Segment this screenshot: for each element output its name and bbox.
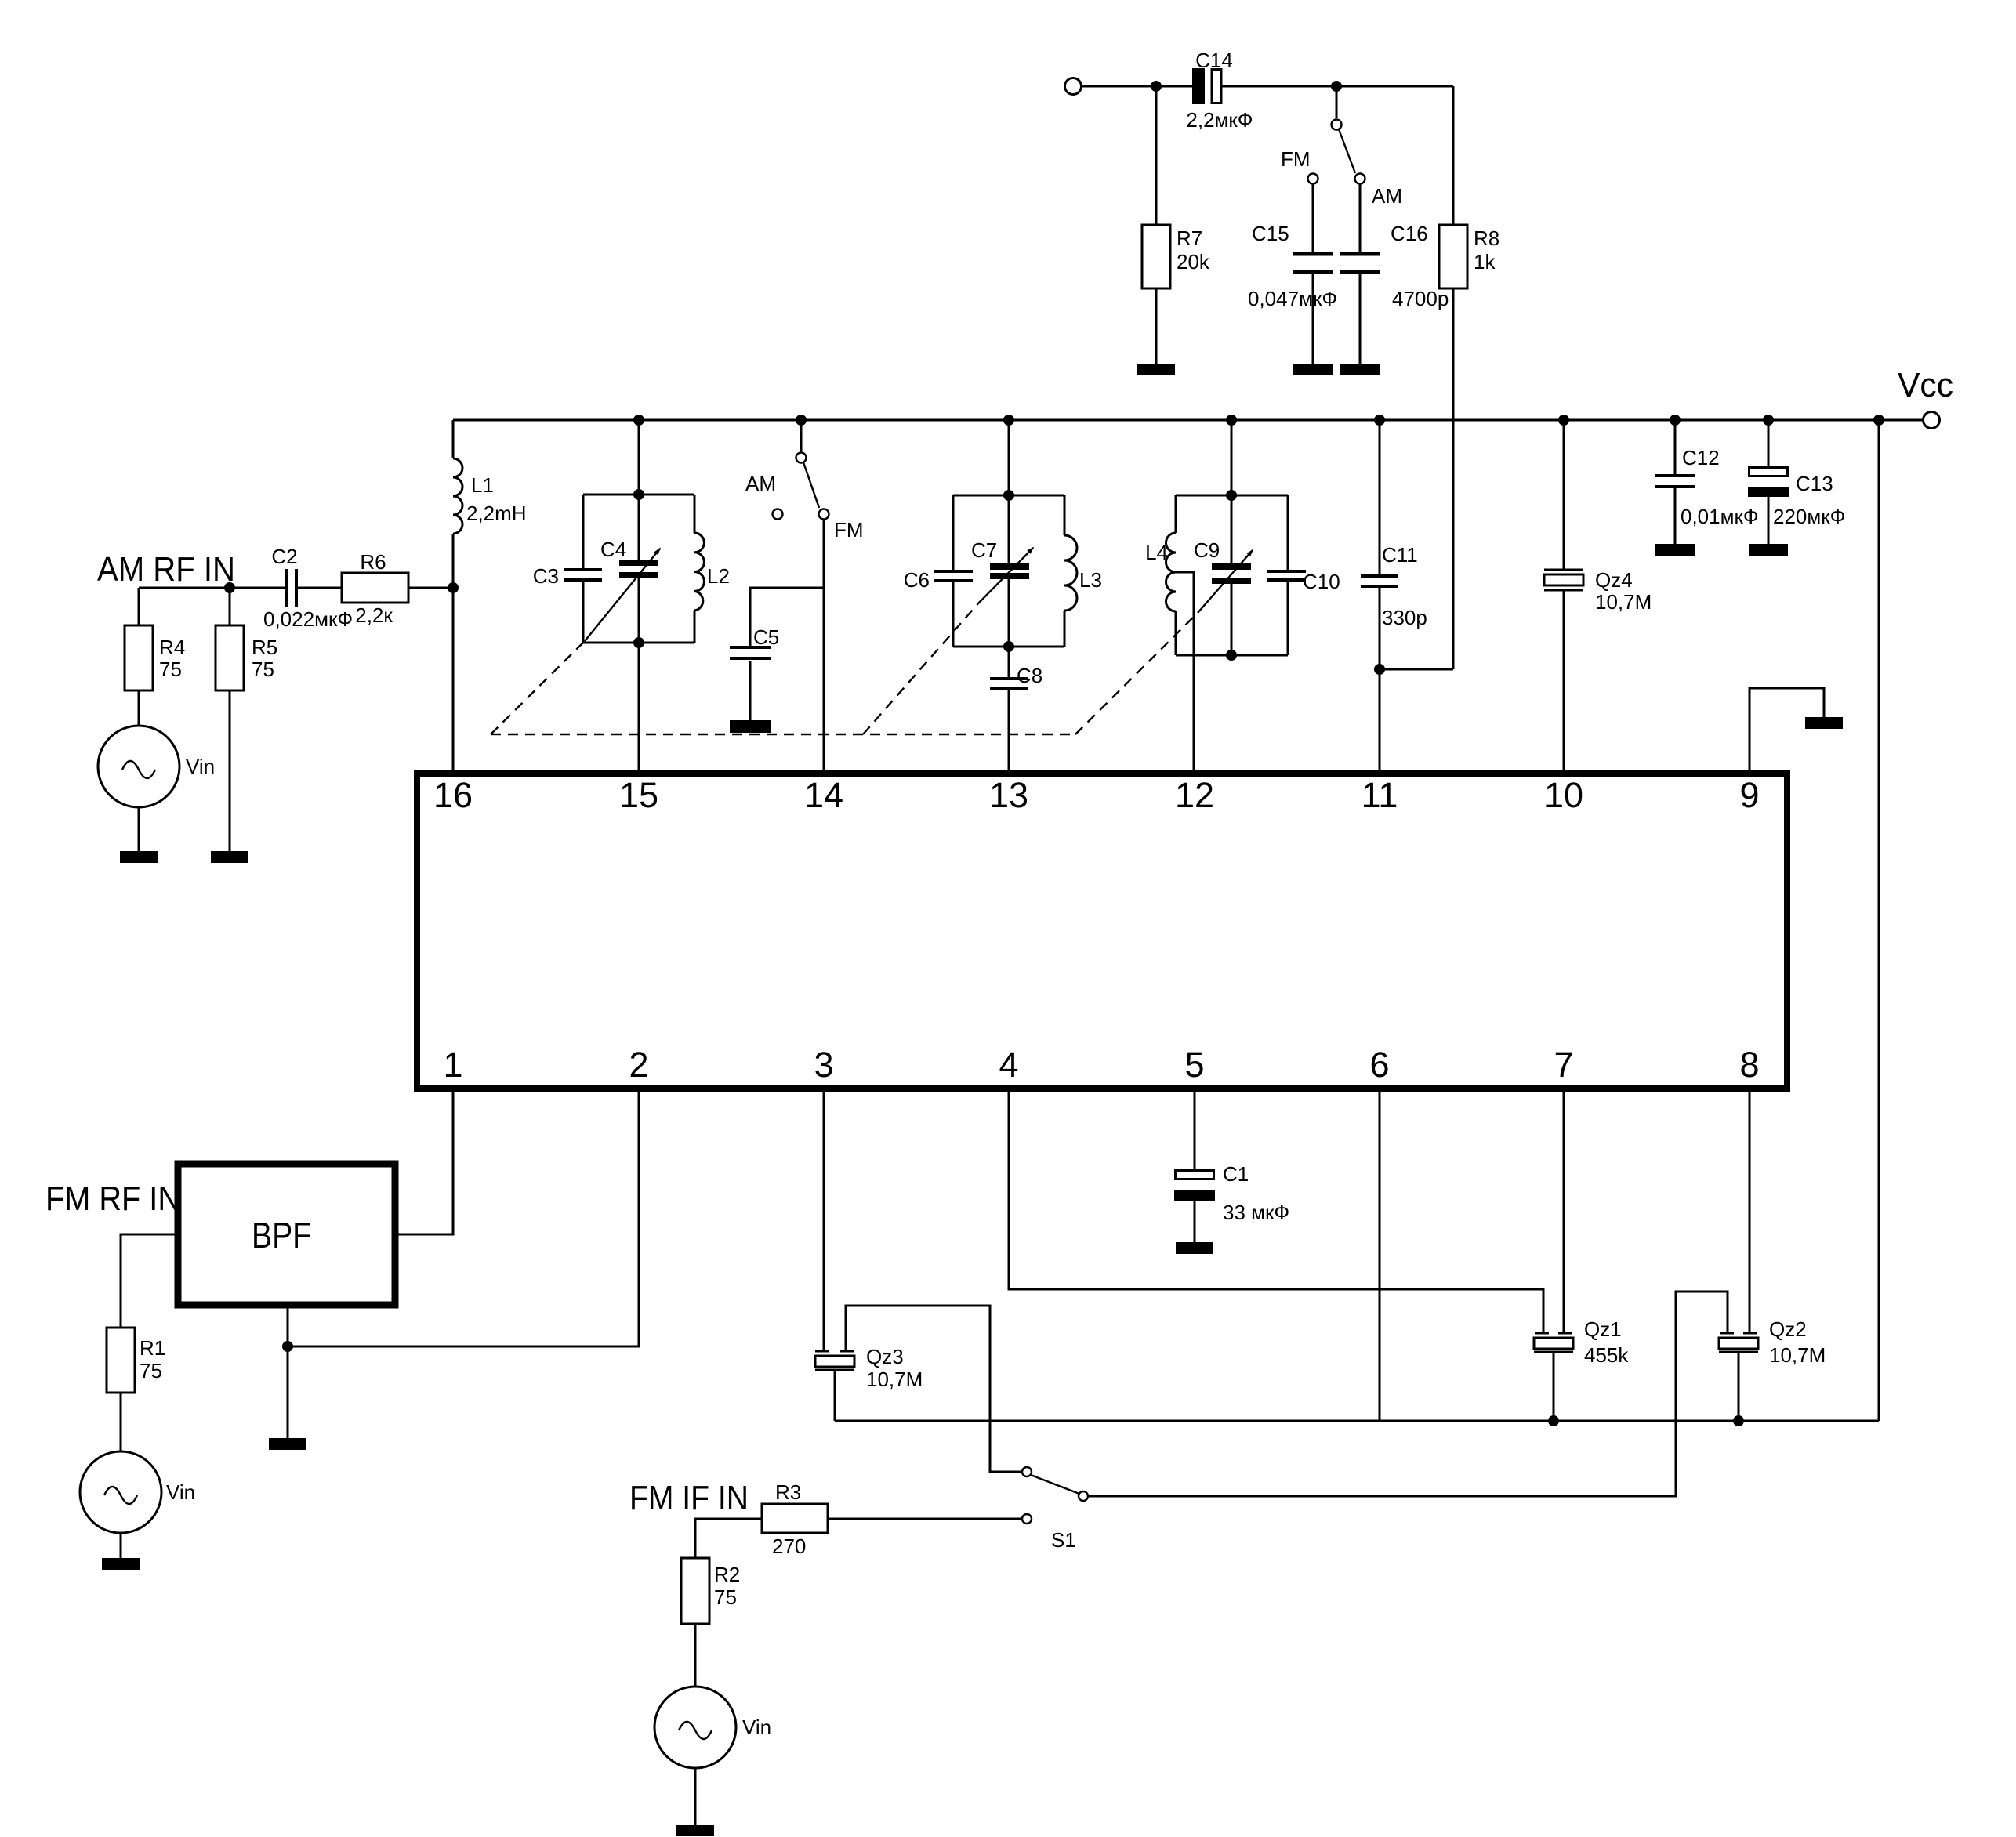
svg-text:L4: L4	[1145, 541, 1168, 564]
wire rail to tank3	[1231, 420, 1233, 495]
svg-text:FM IF IN: FM IF IN	[629, 1479, 749, 1517]
svg-text:R6: R6	[360, 550, 386, 574]
inductor L4	[1166, 533, 1177, 611]
resistor R1	[107, 1328, 135, 1393]
wire rail to C11	[1379, 420, 1381, 576]
svg-text:330p: 330p	[1382, 606, 1427, 629]
switch AM contact (pin14)	[773, 509, 783, 520]
wire C16 to ground	[1359, 274, 1362, 364]
svg-text:12: 12	[1175, 775, 1214, 815]
resistor R3	[762, 1504, 828, 1533]
svg-text:10,7M: 10,7M	[1595, 590, 1652, 614]
capacitor C7 (variable)	[990, 563, 1029, 579]
wire rail to C13	[1768, 420, 1770, 466]
wire C13 to ground	[1768, 497, 1770, 544]
svg-text:0,01мкФ: 0,01мкФ	[1681, 505, 1759, 528]
svg-text:C5: C5	[753, 625, 779, 649]
svg-text:C13: C13	[1796, 472, 1833, 495]
svg-text:C10: C10	[1303, 570, 1340, 593]
arrow C7	[978, 548, 1033, 603]
svg-text:4: 4	[999, 1045, 1018, 1085]
svg-text:4700p: 4700p	[1392, 287, 1449, 310]
svg-text:2,2мкФ: 2,2мкФ	[1186, 108, 1253, 132]
wire rail to C12	[1674, 420, 1677, 476]
svg-text:75: 75	[714, 1585, 737, 1609]
node L1/R6 junction	[448, 582, 459, 593]
svg-text:10: 10	[1544, 775, 1583, 815]
wire rail to tank1	[638, 420, 640, 495]
node tank2 bottom	[1003, 641, 1014, 652]
svg-text:AM RF IN: AM RF IN	[97, 550, 235, 589]
svg-text:AM: AM	[1372, 184, 1402, 208]
node junction at R7 tap	[1151, 81, 1162, 92]
capacitor C13 (polarized)	[1748, 468, 1789, 498]
svg-text:2: 2	[629, 1045, 648, 1085]
svg-text:R5: R5	[252, 636, 277, 659]
resistor R2	[681, 1558, 709, 1624]
svg-text:5: 5	[1184, 1045, 1204, 1085]
svg-text:AM: AM	[745, 472, 776, 495]
wire pin 7 to Qz1	[1563, 1089, 1565, 1333]
switch S1 bottom contact	[1022, 1514, 1032, 1524]
svg-text:FM RF IN: FM RF IN	[45, 1179, 180, 1218]
wire terminal to C14	[1082, 85, 1192, 88]
svg-text:10,7M: 10,7M	[866, 1368, 923, 1391]
node tank2 top	[1003, 490, 1014, 501]
resistor R5	[216, 625, 244, 690]
source Vin (AM)	[98, 726, 179, 807]
ground (R5)	[211, 851, 248, 863]
node rail/tank3	[1226, 415, 1237, 426]
ground (Vin AM)	[120, 851, 158, 863]
node tank1 bottom	[633, 637, 644, 648]
crystal Qz4	[1544, 420, 1583, 770]
wire tank3 top to C9	[1231, 495, 1233, 563]
wire R3 to S1 bottom contact	[828, 1518, 1021, 1520]
IC body	[417, 774, 1787, 1089]
svg-text:C3: C3	[533, 564, 559, 588]
source Vin (FM RF)	[80, 1451, 161, 1533]
ground (C16)	[1340, 364, 1380, 375]
node rail/right drop	[1873, 415, 1884, 426]
svg-text:Vcc: Vcc	[1898, 366, 1953, 404]
svg-text:R4: R4	[159, 636, 185, 659]
wire pin 8 to Qz2	[1749, 1089, 1751, 1333]
svg-text:20k: 20k	[1177, 250, 1210, 274]
wire Qz3 right pin to S1 top contact	[846, 1306, 1021, 1472]
wire C15 to ground	[1312, 274, 1314, 364]
node Qz2/bottom net	[1733, 1415, 1744, 1426]
capacitor C11	[1361, 576, 1398, 586]
node rail/Qz4	[1558, 415, 1569, 426]
wire C11 to pin 11	[1379, 586, 1381, 770]
inductor L2	[694, 533, 704, 611]
svg-text:8: 8	[1739, 1045, 1759, 1085]
ground (Vin FM IF)	[676, 1825, 714, 1836]
wire right drop (rail to bottom net)	[1878, 420, 1880, 1421]
svg-text:L1: L1	[471, 473, 494, 497]
crystal Qz1	[1534, 1333, 1573, 1421]
wire C8 to pin 13	[1008, 689, 1010, 770]
svg-text:L3: L3	[1079, 568, 1102, 592]
wire pin15 rail to C4	[638, 420, 640, 560]
svg-text:R8: R8	[1474, 226, 1499, 250]
node rail/pin15	[633, 415, 644, 426]
svg-text:3: 3	[814, 1045, 833, 1085]
wire C5 branch	[750, 588, 824, 647]
capacitor C3	[564, 570, 602, 580]
dashed gang diagonal C4	[491, 641, 585, 734]
crystal Qz2	[1719, 1333, 1758, 1421]
capacitor C6	[934, 571, 973, 581]
wire FM IF input	[695, 1519, 762, 1558]
node rail/pin13	[1003, 415, 1014, 426]
wire C14 to R8 corner	[1222, 85, 1453, 88]
wire FM contact to C15	[1312, 183, 1314, 252]
svg-text:C1: C1	[1223, 1162, 1249, 1186]
capacitor C12	[1655, 476, 1695, 487]
svg-text:Qz3: Qz3	[866, 1345, 904, 1368]
svg-text:R3: R3	[775, 1480, 801, 1504]
block BPF	[178, 1164, 395, 1305]
switch S1 top contact	[1022, 1467, 1032, 1476]
wire Vin FM to ground	[120, 1533, 122, 1558]
wire FM contact to pin 14	[823, 520, 825, 770]
arrow C4	[585, 549, 660, 641]
svg-text:C15: C15	[1252, 222, 1289, 245]
svg-text:9: 9	[1739, 775, 1759, 815]
resistor R4	[125, 625, 153, 690]
wire tank2 to C8	[1008, 647, 1010, 679]
ground (pin 9)	[1805, 717, 1843, 729]
svg-text:220мкФ: 220мкФ	[1773, 505, 1845, 528]
wire R7 drop	[1155, 86, 1158, 225]
node tank3 top	[1226, 490, 1237, 501]
dashed gang diagonal C7	[863, 603, 978, 734]
wire corner to R8	[1452, 86, 1455, 225]
svg-text:FM: FM	[834, 518, 864, 542]
wire pin 5 to C1	[1194, 1089, 1196, 1169]
wire C5 to ground	[749, 661, 752, 720]
ground (R7)	[1137, 364, 1175, 375]
svg-text:C16: C16	[1391, 222, 1428, 245]
ground (C13)	[1749, 544, 1788, 556]
wire pin 3 to Qz3	[823, 1089, 825, 1351]
wire pin13 rail to C7	[1008, 420, 1010, 563]
wire C12 to ground	[1674, 487, 1677, 544]
wire AM input	[139, 587, 285, 589]
svg-text:0,022мкФ: 0,022мкФ	[263, 607, 353, 631]
resistor R7	[1142, 225, 1170, 288]
node rail/switch14	[796, 415, 807, 426]
svg-text:C9: C9	[1194, 538, 1220, 562]
wire pin 2 to BPF node	[288, 1089, 639, 1346]
ground (C12)	[1655, 544, 1695, 556]
svg-text:Vin: Vin	[186, 755, 215, 778]
inductor L1	[453, 420, 462, 770]
svg-text:0,047мкФ: 0,047мкФ	[1248, 287, 1337, 310]
node rail/C11	[1374, 415, 1385, 426]
svg-text:L2: L2	[707, 564, 730, 588]
wire R5 to ground	[229, 690, 231, 851]
wire R8 down to C11 net	[1452, 288, 1455, 669]
wire R2 to Vin	[694, 1624, 697, 1687]
wire C11 node to R8 drop	[1380, 668, 1453, 671]
wire R7 to ground	[1155, 288, 1158, 364]
node tank1 top	[633, 489, 644, 500]
wire AM input to R4	[138, 588, 140, 625]
resistor R8	[1439, 225, 1467, 288]
wire pin 1 to BPF	[398, 1089, 453, 1234]
svg-text:2,2mH: 2,2mH	[466, 502, 527, 525]
svg-text:11: 11	[1362, 775, 1398, 815]
svg-text:1: 1	[443, 1045, 462, 1085]
node BPF/pin2	[282, 1341, 293, 1352]
switch FM/AM (top) pole	[1332, 86, 1356, 173]
node C11/R8	[1374, 664, 1385, 675]
switch S1 blade	[1031, 1475, 1079, 1494]
capacitor C5	[730, 647, 771, 658]
svg-text:C6: C6	[904, 568, 930, 592]
arrow C9	[1198, 550, 1253, 613]
dashed gang bus	[491, 734, 1075, 735]
svg-text:C2: C2	[271, 545, 297, 568]
svg-text:10,7M: 10,7M	[1769, 1343, 1826, 1367]
dashed gang diagonal C9	[1075, 613, 1198, 734]
tank 3 box (L4/C9/C10)	[1176, 495, 1288, 655]
ground (C15)	[1293, 364, 1333, 375]
capacitor C1 (polarized)	[1174, 1171, 1215, 1201]
wire R6 to L1 line	[408, 587, 453, 589]
svg-text:Qz2: Qz2	[1769, 1317, 1807, 1341]
svg-text:C12: C12	[1682, 446, 1720, 469]
wire Vin FM IF to ground	[694, 1768, 697, 1825]
wire BPF bottom to ground	[287, 1305, 289, 1438]
node rail/C12	[1670, 415, 1681, 426]
capacitor C15	[1293, 254, 1333, 272]
wire R4 to Vin	[138, 690, 140, 726]
svg-text:Qz1: Qz1	[1584, 1317, 1622, 1341]
ground (BPF)	[269, 1438, 306, 1450]
svg-text:Qz4: Qz4	[1595, 568, 1633, 592]
svg-text:R7: R7	[1177, 226, 1202, 250]
switch FM contact	[1308, 174, 1318, 184]
resistor R6	[342, 573, 408, 603]
wire pin 9 to ground	[1749, 688, 1824, 770]
svg-text:Vin: Vin	[166, 1480, 195, 1504]
node Qz1/bottom net	[1548, 1415, 1559, 1426]
capacitor C9 (variable)	[1212, 563, 1251, 584]
svg-text:BPF: BPF	[252, 1215, 311, 1255]
capacitor C10	[1267, 571, 1306, 580]
svg-text:S1: S1	[1051, 1528, 1076, 1552]
tank 1 box (C3/C4/L2)	[583, 495, 694, 643]
svg-text:455k: 455k	[1584, 1343, 1629, 1367]
wire FM input to BPF	[121, 1234, 178, 1328]
node tank3 bottom	[1226, 650, 1237, 661]
wire Vin to ground	[138, 807, 140, 851]
wire pin 6 to bottom net	[1379, 1089, 1381, 1421]
capacitor C16	[1340, 254, 1380, 272]
ground (C1)	[1176, 1242, 1213, 1254]
wire S1 common to Qz2 left pin	[1088, 1292, 1728, 1496]
wire rail to tank2	[1008, 420, 1010, 495]
switch S1 common contact	[1079, 1491, 1088, 1501]
capacitor C8	[990, 679, 1028, 689]
ground (C5)	[730, 720, 771, 733]
inductor L3	[1064, 535, 1077, 611]
wire C4 to pin 15	[638, 578, 640, 770]
svg-text:Vin: Vin	[742, 1716, 771, 1739]
wire pin 4 to Qz1 left pin	[1009, 1089, 1543, 1333]
svg-text:14: 14	[804, 775, 843, 815]
node rail/C13	[1763, 415, 1774, 426]
svg-text:R2: R2	[714, 1563, 740, 1586]
wire AM contact to C16	[1359, 183, 1362, 252]
wire L4 tap to pin 12	[1176, 572, 1194, 770]
Vcc terminal	[1924, 412, 1940, 429]
svg-text:75: 75	[140, 1359, 162, 1382]
source Vin (FM IF)	[654, 1687, 736, 1768]
svg-text:C7: C7	[971, 538, 997, 562]
wire C1 to ground	[1194, 1201, 1196, 1242]
svg-text:15: 15	[619, 775, 658, 815]
svg-text:13: 13	[989, 775, 1028, 815]
input terminal (top)	[1065, 78, 1082, 95]
wire C2 to R6	[296, 587, 342, 589]
Vcc rail	[453, 419, 1923, 422]
wire bottom net	[835, 1420, 1879, 1422]
svg-text:2,2к: 2,2к	[355, 603, 393, 627]
wire node to R5	[229, 588, 231, 625]
svg-text:270: 270	[772, 1534, 806, 1558]
wire R1 to Vin	[120, 1393, 122, 1451]
svg-text:75: 75	[252, 658, 274, 681]
svg-text:C4: C4	[600, 538, 626, 561]
svg-text:75: 75	[159, 658, 182, 681]
switch AM/FM (pin 14) pole	[796, 420, 820, 508]
capacitor C14 (polarized)	[1192, 68, 1221, 104]
capacitor C2	[287, 569, 296, 607]
svg-text:6: 6	[1369, 1045, 1389, 1085]
svg-text:C14: C14	[1195, 49, 1233, 72]
svg-text:C8: C8	[1017, 664, 1042, 687]
wire C7 to tank bottom	[1008, 579, 1010, 647]
svg-text:1k: 1k	[1474, 250, 1496, 274]
svg-text:C11: C11	[1382, 543, 1418, 567]
crystal Qz3	[815, 1351, 854, 1421]
switch AM contact	[1355, 174, 1365, 184]
node junction at switch tap	[1331, 81, 1342, 92]
capacitor C4 (variable)	[619, 560, 658, 578]
svg-text:7: 7	[1554, 1045, 1573, 1085]
svg-text:FM: FM	[1281, 147, 1311, 171]
switch FM contact (pin14)	[819, 509, 829, 520]
svg-text:16: 16	[433, 775, 473, 815]
tank 2 box (C6/C7/L3)	[953, 495, 1064, 647]
svg-text:R1: R1	[140, 1336, 165, 1360]
node AM input/R5	[224, 582, 235, 593]
ground (Vin FM)	[102, 1558, 140, 1570]
svg-text:33 мкФ: 33 мкФ	[1223, 1201, 1289, 1224]
wire C9 to tank3 bottom	[1231, 584, 1233, 655]
